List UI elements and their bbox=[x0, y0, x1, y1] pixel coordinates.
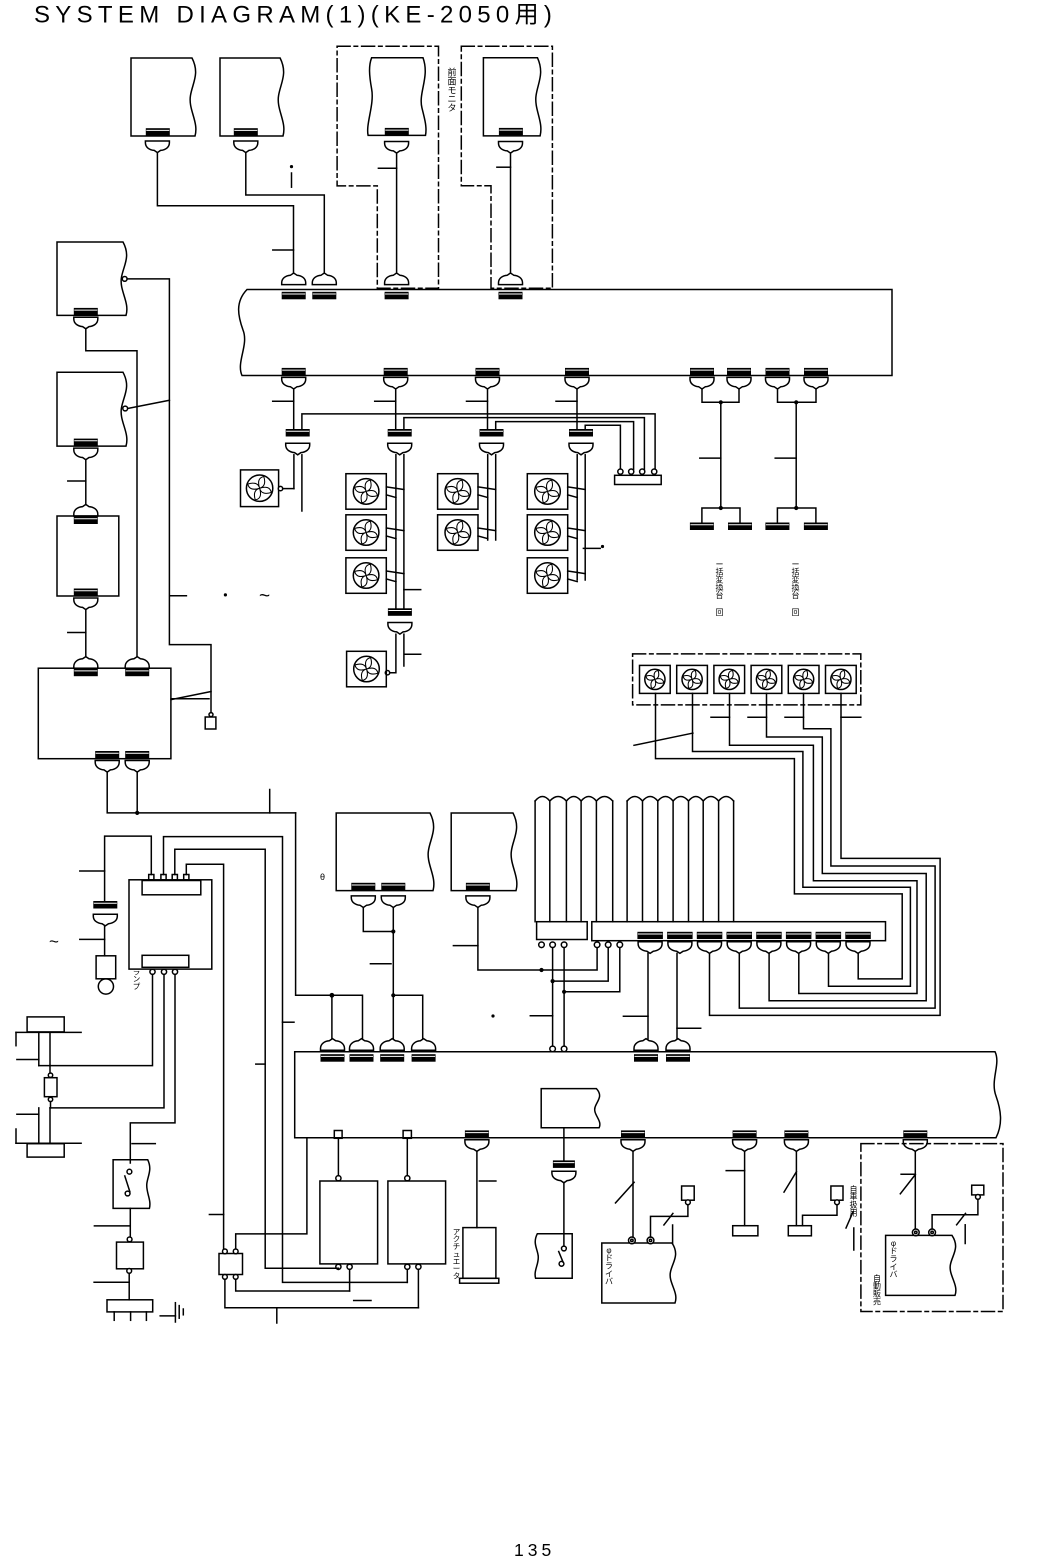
fan unit col1 row1 bbox=[346, 474, 386, 510]
ribbon cable bundle 2 bbox=[626, 801, 628, 922]
ribbon connector strip 1 bbox=[537, 922, 588, 940]
wire to lamp bbox=[104, 926, 106, 956]
svg-text:バ: バ bbox=[605, 1277, 613, 1286]
slash on driver2 drop bbox=[900, 1175, 915, 1194]
strip1 pin 2 bbox=[550, 942, 556, 948]
relay strip pin at x=642.2 bbox=[640, 469, 645, 474]
tick on B4 wire bbox=[497, 166, 511, 168]
dome above control unit left bbox=[74, 657, 98, 669]
strip2 pin 3 bbox=[617, 942, 623, 948]
feed wire drop 2 to relay strip bbox=[404, 418, 645, 470]
bus2 bottom bell 2 bbox=[621, 1140, 645, 1152]
small connector box bbox=[219, 1254, 243, 1275]
controller top pin 2 bbox=[161, 875, 166, 880]
bus2 bottom bar 1 bbox=[465, 1130, 489, 1138]
connector bar in L1 bbox=[74, 308, 98, 316]
switch1 contact upper bbox=[127, 1169, 132, 1174]
bus bottom connector bell 7 bbox=[766, 377, 790, 389]
wire fan S2 staircase bbox=[693, 693, 911, 986]
fan unit F4 (col1 bottom) bbox=[347, 651, 387, 687]
hook col3 row1 b bbox=[568, 495, 578, 498]
actuator drop wire bbox=[476, 1151, 478, 1227]
label exchange stand 1 bottom char bbox=[716, 608, 724, 617]
split wire x=796.2 bbox=[777, 508, 816, 523]
bus top connector bar from B1 bbox=[282, 292, 306, 300]
plug bell below L3 bbox=[74, 598, 98, 610]
wire pair col1 right bbox=[403, 455, 405, 609]
bus bottom connector bell 5 bbox=[690, 377, 714, 389]
feed wire drop 1 to relay strip bbox=[302, 414, 655, 469]
bus bottom connector bar 5 bbox=[690, 368, 714, 376]
coin switch box (torn left) bbox=[535, 1234, 572, 1279]
bus2 bottom bell 4 bbox=[784, 1140, 808, 1152]
wire col1 to fan F4 bbox=[389, 634, 396, 673]
label exchange stand 2 (vertical) bbox=[792, 560, 800, 600]
plug bell below L4 right bbox=[125, 761, 149, 773]
small fan unit S5 bbox=[788, 665, 819, 693]
bus bottom connector bell 2 bbox=[384, 377, 408, 389]
fuse box lower bbox=[117, 1242, 144, 1269]
dot mark above fan strip bbox=[601, 545, 604, 548]
tick on L2 drop bbox=[68, 480, 86, 482]
wire pin4 right bbox=[186, 864, 223, 1249]
tick on v265 bbox=[256, 1063, 265, 1065]
fuse top circle bbox=[48, 1073, 52, 1077]
terminal foot 796 bbox=[788, 1226, 811, 1236]
cross wire link 2 bbox=[553, 948, 609, 982]
tick on driver2 drop bbox=[901, 1173, 915, 1175]
wire R1 top pin to bus2 bbox=[337, 1138, 339, 1175]
inline connector bell drop 3 bbox=[480, 443, 504, 455]
hook col1 row1 b bbox=[386, 495, 396, 498]
bus2 bottom bell 5 bbox=[903, 1140, 927, 1152]
switch lever bbox=[559, 1252, 563, 1263]
unit box B (torn right) bbox=[451, 813, 517, 891]
wire P3 to driver2 bbox=[932, 1199, 978, 1228]
bus2 top bar 3 bbox=[380, 1054, 404, 1062]
fan unit col3 row1 bbox=[527, 474, 567, 510]
pin circle on L2 torn edge bbox=[123, 406, 128, 411]
label actuator (vertical) bbox=[453, 1227, 461, 1280]
driver2 pin 1 bbox=[912, 1229, 919, 1236]
bus2 bottom bar 4 bbox=[784, 1130, 808, 1138]
svg-text:プ: プ bbox=[133, 982, 141, 991]
dot mark mid left bbox=[224, 593, 227, 596]
wire P1 to driver1 bbox=[651, 1205, 688, 1237]
fan unit col3 row3 bbox=[527, 558, 567, 594]
switch contact upper bbox=[562, 1246, 567, 1251]
ground bar 2 bbox=[178, 1306, 180, 1319]
diagonal leader to L2 edge pin bbox=[128, 400, 170, 408]
terminal block bbox=[107, 1300, 153, 1312]
tick on B1-bus wire bbox=[273, 249, 294, 251]
inline connector bell drop 2 bbox=[388, 443, 412, 455]
controller inner bottom bbox=[142, 955, 189, 967]
tick right of F4 wire bbox=[405, 653, 421, 655]
terminal circle on bus2 edge 1 bbox=[550, 1046, 556, 1052]
switch contact lower bbox=[559, 1261, 564, 1266]
junction dot A wires bbox=[391, 929, 395, 933]
junction dot cross 2 bbox=[551, 979, 555, 983]
drop to bus2 dome 1 bbox=[331, 995, 333, 1038]
stub on bottom rail bbox=[276, 1308, 278, 1323]
inline connector bar col1 lower bbox=[388, 608, 412, 616]
dome above control unit right bbox=[125, 657, 149, 669]
bus top connector dome from B4 bbox=[499, 273, 523, 285]
tick below fan S5 bbox=[785, 716, 804, 718]
controller bottom pin 2 bbox=[161, 969, 166, 974]
wire col1 lower right bbox=[403, 634, 405, 666]
plug bell below B1 bbox=[145, 141, 169, 153]
bus2 top bar 2 bbox=[350, 1054, 374, 1062]
plug bell below A left bbox=[351, 896, 375, 908]
wire R1 pinL bbox=[337, 1268, 339, 1269]
bus2 top dome 3 bbox=[380, 1039, 404, 1051]
connector bar in B bbox=[466, 883, 490, 891]
wire pin1 down to caster bbox=[39, 974, 153, 1065]
bar on L3 top edge bbox=[74, 517, 98, 525]
tick on drop 3 bbox=[467, 400, 488, 402]
wire to bus2 bells left bbox=[296, 813, 363, 1039]
inline connector bell drop 1 bbox=[286, 443, 310, 455]
driver2 box (torn right) bbox=[886, 1235, 956, 1295]
tick on lamp feed bbox=[80, 870, 105, 872]
controller inner top bbox=[142, 881, 201, 895]
bus bottom connector bar 7 bbox=[766, 368, 790, 376]
bus bottom connector bar 1 bbox=[282, 368, 306, 376]
R1 top pin bbox=[336, 1176, 341, 1181]
svg-text:135: 135 bbox=[514, 1540, 555, 1560]
small fan unit S1 bbox=[640, 665, 671, 693]
small fan unit S6 bbox=[826, 665, 857, 693]
bus top connector dome from B3 bbox=[385, 273, 409, 285]
label lamp (vertical) bbox=[133, 967, 141, 991]
lamp bulb bbox=[98, 979, 113, 994]
wire bus drop 4 vertical bbox=[576, 389, 578, 429]
inline connector bell mid-bottom bbox=[552, 1171, 576, 1183]
wire R2 pinL bbox=[406, 1269, 408, 1282]
caster top line bbox=[16, 1031, 81, 1033]
wire B4 to bus connector bbox=[510, 153, 512, 273]
tick caster lower bbox=[17, 1113, 39, 1115]
driver1 pin 2 bbox=[647, 1237, 654, 1244]
unit box L2 (torn right) bbox=[57, 372, 127, 446]
driver1 pin 1 bbox=[629, 1237, 636, 1244]
tick on bell1 drop bbox=[623, 1015, 648, 1017]
wire fan S1 staircase bbox=[656, 693, 903, 979]
strip2 connector bar 1 bbox=[637, 932, 663, 939]
svg-text:台: 台 bbox=[792, 590, 800, 600]
inline connector bar lamp bbox=[93, 901, 117, 909]
inline connector bell lamp bbox=[93, 914, 117, 926]
svg-text:回: 回 bbox=[792, 608, 800, 617]
wire A right bell down bbox=[392, 908, 394, 1039]
relay box R2 bbox=[388, 1181, 446, 1264]
wire B2 to bus connector bbox=[246, 153, 324, 273]
bus2 top bar 4 bbox=[412, 1054, 436, 1062]
P2 pin bbox=[835, 1200, 840, 1205]
wire R2 top pin to bus2 bbox=[406, 1138, 408, 1175]
strip2 bell 2 bbox=[668, 942, 692, 954]
unit box L1 (torn right) bbox=[57, 242, 127, 315]
strip2 connector bar 3 bbox=[697, 932, 723, 939]
fan unit F1 (single) bbox=[241, 470, 279, 507]
label driver2 (vertical) bbox=[890, 1239, 898, 1279]
hook col3 row3 b bbox=[568, 579, 578, 582]
unit box L3 bbox=[57, 516, 119, 596]
wire A left bell bbox=[363, 908, 393, 932]
tick caster upper bbox=[17, 1059, 39, 1061]
caster channel upper right bbox=[49, 1032, 51, 1065]
terminal bar right x=796.2 bbox=[804, 523, 828, 531]
lamp body bbox=[96, 956, 116, 979]
wire pin1 to lamp connector bbox=[105, 836, 152, 901]
svg-text:~: ~ bbox=[259, 586, 270, 607]
terminal bar right x=720.8 bbox=[728, 523, 752, 531]
unit box A (torn right) bbox=[336, 813, 434, 891]
fan unit col2 row1 bbox=[438, 474, 478, 510]
wire bus2 to connector box bbox=[236, 1138, 307, 1249]
wire pair below drop 1 right bbox=[301, 455, 303, 511]
plug square terminal bbox=[205, 717, 216, 729]
wire bus drop 2 vertical bbox=[395, 389, 397, 429]
wire switch1 down bbox=[129, 1208, 131, 1237]
relay strip pin at x=654.2 bbox=[652, 469, 657, 474]
fuse bottom circle bbox=[48, 1097, 52, 1101]
strip2 bell 7 bbox=[816, 942, 840, 954]
driver2 drop wire bbox=[914, 1151, 916, 1228]
bus bottom connector bell 4 bbox=[565, 377, 589, 389]
strip2 connector bar 5 bbox=[756, 932, 782, 939]
dash-dot boundary around B3 bbox=[337, 46, 438, 288]
tick on bottom rail bbox=[354, 1300, 371, 1302]
power switch box (torn right) bbox=[113, 1160, 150, 1209]
strip2 bell 4 bbox=[727, 942, 751, 954]
wire pin2 down to caster bbox=[50, 974, 164, 1108]
terminal foot 744 bbox=[733, 1226, 758, 1236]
bus bottom connector bell 6 bbox=[727, 377, 751, 389]
terminal bar left x=720.8 bbox=[690, 523, 714, 531]
bus top connector bar from B3 bbox=[385, 292, 409, 300]
wire pair col1 left bbox=[395, 455, 397, 609]
junction dot pin cross 1 bbox=[539, 968, 543, 972]
terminal drop wire 796 bbox=[795, 1151, 797, 1225]
wire pair col3 left bbox=[576, 455, 578, 580]
bus bottom connector bar 2 bbox=[384, 368, 408, 376]
ribbon connector strip 2 bbox=[592, 922, 886, 941]
bus2 top dome 2 bbox=[350, 1039, 374, 1051]
caster bottom bar bbox=[27, 1144, 64, 1157]
connector bar in B1 bbox=[146, 128, 170, 136]
tick on v223 bbox=[209, 1214, 223, 1216]
split wire x=720.8 bbox=[702, 508, 740, 523]
bus bottom connector bar 4 bbox=[565, 368, 589, 376]
terminal tooth 2 bbox=[130, 1312, 132, 1320]
dot mark middle area bbox=[491, 1014, 494, 1017]
dash-dot boundary vending unit bbox=[861, 1144, 1003, 1312]
monitor unit box B4 (torn right) bbox=[483, 58, 541, 136]
terminal tooth 3 bbox=[145, 1312, 147, 1320]
tick on drop 2 bbox=[375, 400, 396, 402]
wire pin3 right bbox=[175, 849, 339, 1268]
wire pair col2 right bbox=[495, 455, 497, 540]
svg-text:タ: タ bbox=[447, 103, 456, 113]
inline connector bar mid-bottom bbox=[553, 1160, 575, 1168]
caster channel upper left bbox=[38, 1032, 40, 1065]
strip2 bell 8 bbox=[846, 942, 870, 954]
plug square P3 bbox=[972, 1185, 984, 1195]
hook col1 row2 b bbox=[386, 536, 396, 539]
strip2 connector bar 4 bbox=[727, 932, 753, 939]
switch1 contact lower bbox=[125, 1191, 130, 1196]
tick on drop x=796.2 bbox=[775, 457, 796, 459]
node dot near B2 wire bbox=[290, 165, 293, 168]
branch to bus2 dome 4 bbox=[393, 995, 422, 1038]
tick right of col1 pair bbox=[404, 589, 421, 591]
strip1 pin 3 bbox=[561, 942, 567, 948]
pin above fuse box bbox=[127, 1237, 132, 1242]
stub above junction bbox=[269, 790, 271, 813]
plug bell below L4 left bbox=[95, 761, 119, 773]
bar on L4 bottom left bbox=[95, 751, 119, 759]
relay strip box with pins bbox=[615, 475, 662, 484]
wire fan S3 staircase bbox=[730, 693, 918, 993]
bottom pin at x=349.6 bbox=[347, 1264, 352, 1269]
strip2 bell 3 bbox=[698, 942, 722, 954]
caster bracket upper bbox=[15, 1032, 17, 1045]
pin below fuse box bbox=[127, 1269, 132, 1274]
fan unit col1 row3 bbox=[346, 558, 386, 594]
controller box bbox=[129, 880, 212, 969]
bus top connector dome from B1 bbox=[282, 273, 306, 285]
bus2 bottom bar 5 bbox=[903, 1130, 927, 1138]
wire pair col2 left bbox=[487, 455, 489, 540]
inline connector bar drop 4 bbox=[569, 429, 593, 437]
R2 top pin bbox=[405, 1176, 410, 1181]
square terminal on bus2 bottom 2 bbox=[403, 1131, 411, 1139]
bus bottom connector bar 3 bbox=[476, 368, 500, 376]
monitor unit box B2 (torn right) bbox=[220, 58, 284, 136]
plug bell below B3 bbox=[385, 142, 409, 154]
bus bottom connector bell 8 bbox=[804, 377, 828, 389]
connector pin BL bbox=[223, 1275, 228, 1280]
wire L4 left bell down bbox=[107, 772, 295, 813]
tick right of actuator wire bbox=[479, 1180, 496, 1182]
tick on v282 bbox=[283, 1021, 295, 1023]
strip2 bell 5 bbox=[757, 942, 781, 954]
pin on F1 right edge bbox=[278, 486, 282, 490]
tick on drop 744 bbox=[726, 1170, 744, 1172]
strip2 pin 1 bbox=[594, 942, 600, 948]
wire pin2 right bbox=[164, 837, 408, 1283]
connector bar in B2 bbox=[234, 128, 258, 136]
junction dot x=796.2 bottom bbox=[794, 506, 798, 510]
wire P2 down-left bbox=[803, 1205, 838, 1226]
connector pin TL bbox=[223, 1249, 228, 1254]
fuse wire top bbox=[49, 1066, 51, 1073]
hook col3 row2 b bbox=[568, 536, 578, 539]
hook col1 row3 a bbox=[386, 571, 404, 574]
dash-dot boundary around B4 bbox=[461, 46, 552, 288]
bottom pin at x=338.4 bbox=[336, 1264, 341, 1269]
label driver1 (vertical) bbox=[605, 1246, 613, 1286]
monitor unit box B3 (torn both sides) bbox=[368, 58, 426, 136]
tick on L3 drop bbox=[68, 632, 86, 634]
junction dot cross 3 bbox=[562, 990, 566, 994]
bus bottom connector bar 6 bbox=[727, 368, 751, 376]
strip2 connector bar 6 bbox=[786, 932, 812, 939]
wire to coin switch bbox=[563, 1183, 565, 1247]
plug bell below L1 bbox=[74, 317, 98, 329]
strip1 pin 1 bbox=[539, 942, 545, 948]
slash on driver1 wire bbox=[616, 1182, 635, 1203]
pin circle above plug square bbox=[209, 713, 213, 717]
strip2 pin 2 bbox=[605, 942, 611, 948]
inline connector bar drop 1 bbox=[286, 429, 310, 437]
hook col3 row1 a bbox=[568, 487, 586, 490]
caster bracket lower bbox=[15, 1129, 17, 1143]
plug square P2 bbox=[831, 1186, 843, 1200]
bottom pin at x=407.3 bbox=[405, 1264, 410, 1269]
wire pin3 down to switch bbox=[130, 974, 175, 1163]
fuse body bbox=[44, 1078, 57, 1097]
label exchange stand 1 (vertical) bbox=[716, 560, 724, 600]
wires merge below bells x=796.2 bbox=[778, 389, 817, 402]
caster channel lower left bbox=[38, 1108, 40, 1143]
bottom pin at x=418.4 bbox=[416, 1264, 421, 1269]
controller bottom pin 1 bbox=[150, 969, 155, 974]
bus bottom connector bell 1 bbox=[282, 377, 306, 389]
connector pin BR bbox=[233, 1275, 238, 1280]
pin circle on L1 torn edge bbox=[122, 277, 127, 282]
relay strip pin at x=631.2 bbox=[629, 469, 634, 474]
connector bar in B4 bbox=[499, 128, 523, 135]
ground bar 3 bbox=[182, 1309, 184, 1315]
bar on control unit top right bbox=[125, 669, 149, 677]
hook col2 row2 a bbox=[478, 528, 496, 531]
connector bar in L2 bbox=[74, 439, 98, 447]
tick on drop x=720.8 bbox=[700, 457, 721, 459]
bus2 top dome 4 bbox=[412, 1039, 436, 1051]
dash-dot boundary around fan row bbox=[633, 654, 861, 705]
driver1 drop wire bbox=[632, 1151, 634, 1236]
tick on A drop bbox=[370, 963, 391, 965]
tick below fan S3 bbox=[711, 716, 730, 718]
cross wire pins 3-6 bbox=[563, 948, 565, 1047]
fuse wire bottom bbox=[50, 1102, 52, 1108]
stub near P1 wire bbox=[672, 1225, 674, 1244]
wire L3 bell down bbox=[85, 610, 87, 657]
connector bar in B3 bbox=[385, 128, 409, 135]
wire strip2 bell1 to bus2 bbox=[647, 953, 649, 1038]
stub wire near B2 wire bbox=[291, 173, 293, 187]
cross wire pins 2-5 bbox=[552, 948, 554, 1047]
relay box R1 bbox=[320, 1181, 378, 1264]
wire L2 bell down bbox=[85, 460, 87, 505]
bus2 bottom bell 1 bbox=[465, 1140, 489, 1152]
wire from L1 edge pin bbox=[127, 279, 211, 715]
wire F1 to drop pair bbox=[283, 488, 294, 490]
unit box inside bus2 (torn right) bbox=[541, 1089, 600, 1128]
tick right of switch wire bbox=[132, 1143, 155, 1145]
controller bottom pin 3 bbox=[172, 969, 177, 974]
tick on long vertical wire bbox=[170, 595, 186, 597]
bus bottom connector bar 8 bbox=[804, 368, 828, 376]
relay strip pin at x=620.4 bbox=[618, 469, 623, 474]
junction dot x=796.2 top bbox=[794, 400, 798, 404]
feed wire drop 3 to relay strip bbox=[496, 422, 634, 470]
svg-text:~: ~ bbox=[49, 932, 59, 951]
